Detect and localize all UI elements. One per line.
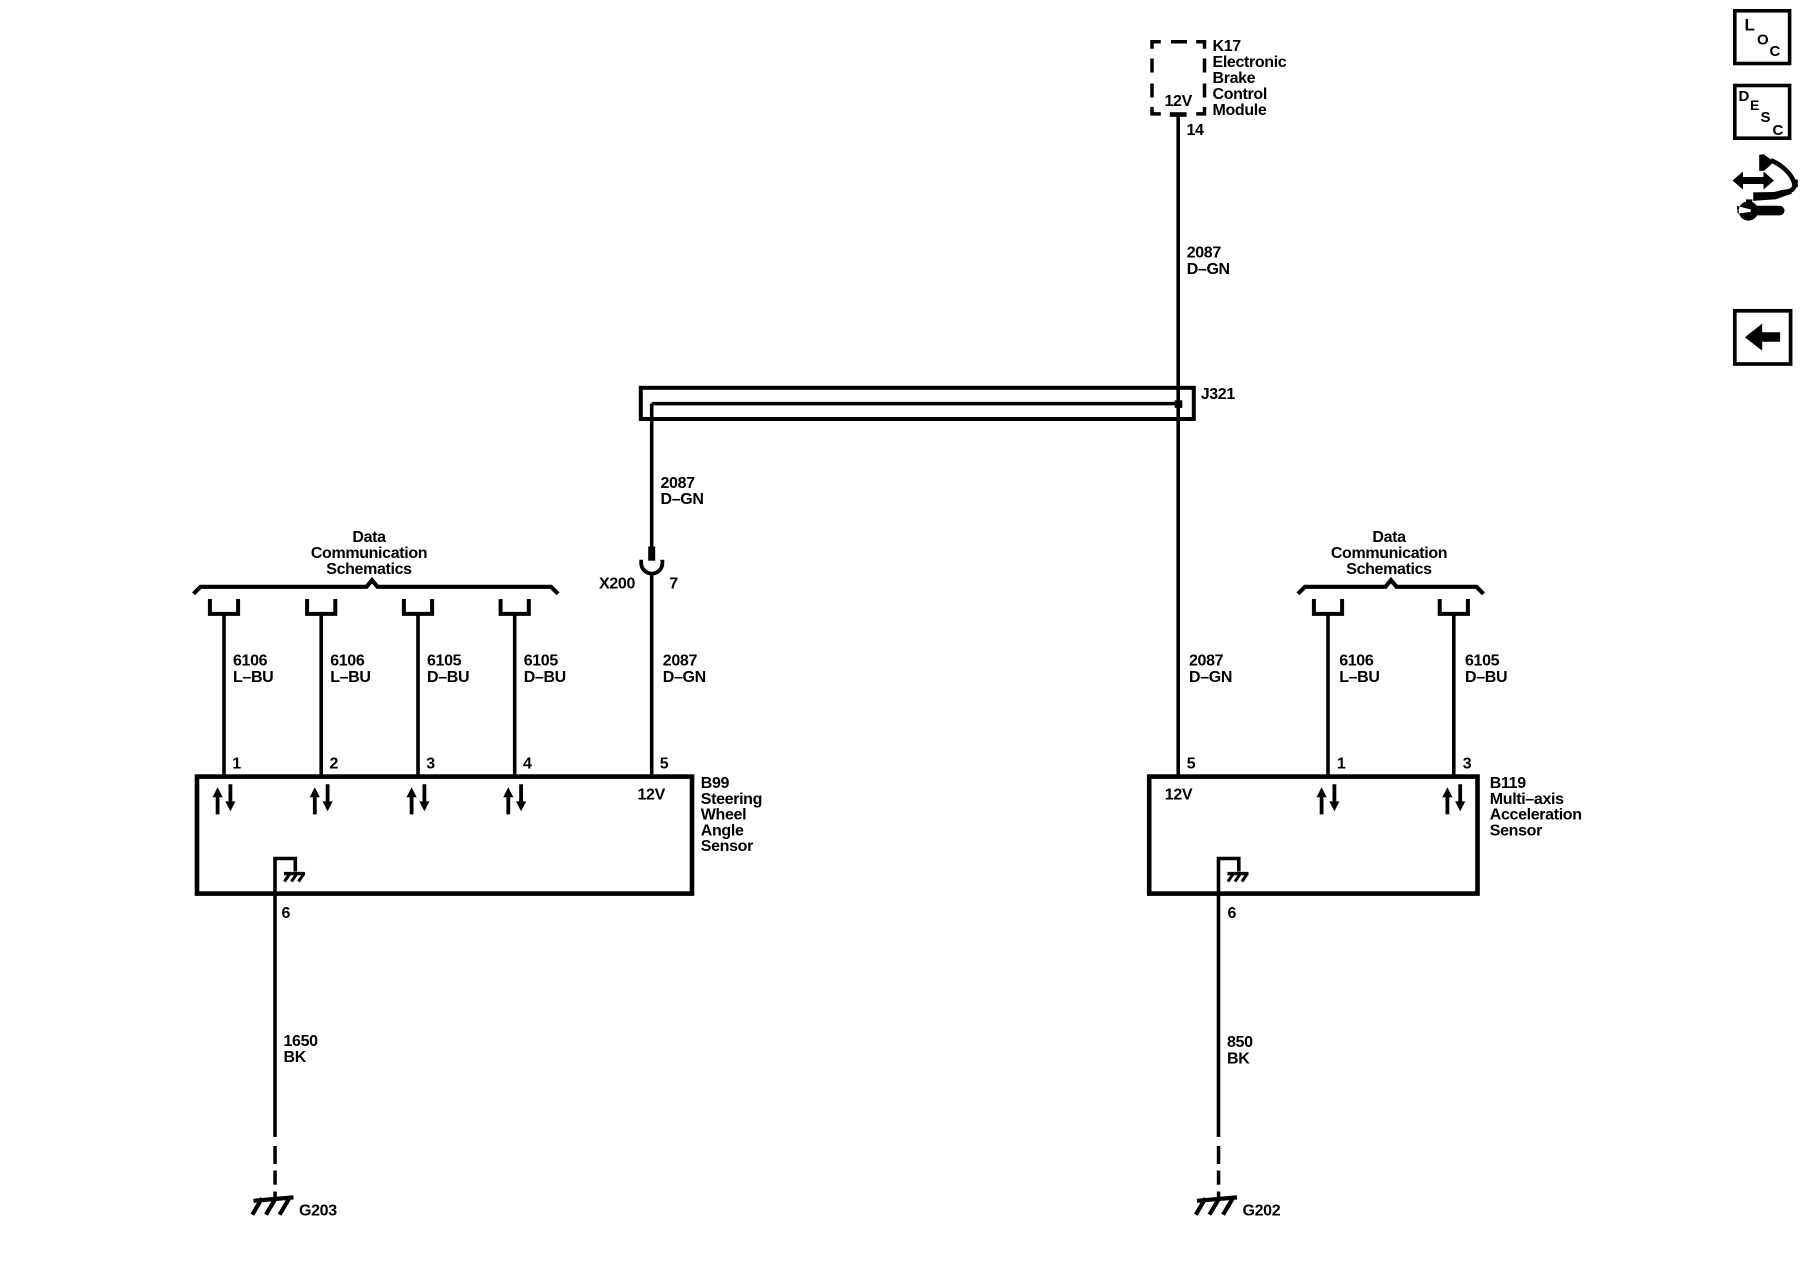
- svg-text:Multi–axis: Multi–axis: [1490, 791, 1564, 808]
- svg-text:X200: X200: [599, 576, 635, 593]
- svg-text:Data: Data: [1372, 529, 1406, 546]
- svg-text:Communication: Communication: [311, 545, 427, 562]
- svg-text:Sensor: Sensor: [1490, 822, 1542, 839]
- svg-text:6105: 6105: [427, 653, 462, 670]
- connector X200 male pin: [648, 547, 655, 561]
- wire 6106 L-BU to B119 pin 1: [1326, 614, 1330, 776]
- svg-text:6105: 6105: [1465, 653, 1500, 670]
- splice pack J321 (outer box): [641, 388, 1194, 419]
- svg-text:6106: 6106: [1339, 653, 1374, 670]
- svg-text:1: 1: [1337, 755, 1346, 772]
- svg-text:B99: B99: [701, 775, 730, 792]
- connector stub to data communication schematics (B99 pin 4): [501, 599, 529, 614]
- svg-text:1650: 1650: [284, 1033, 319, 1050]
- svg-text:6105: 6105: [524, 653, 559, 670]
- svg-text:D–GN: D–GN: [1187, 261, 1230, 278]
- svg-text:L–BU: L–BU: [1339, 669, 1379, 686]
- wire 6106 L-BU to B99 pin 2: [319, 614, 323, 776]
- connector X200 female cup: [641, 560, 662, 574]
- svg-text:D–GN: D–GN: [663, 669, 706, 686]
- bidirectional data arrows at B119 pin 1: [1317, 784, 1340, 814]
- svg-text:6106: 6106: [330, 653, 365, 670]
- svg-text:BK: BK: [1227, 1050, 1250, 1067]
- connector stub to data communication schematics (B119 pin 1): [1314, 599, 1342, 614]
- wire 6105 D-BU to B119 pin 3: [1452, 614, 1456, 776]
- svg-text:6: 6: [282, 905, 291, 922]
- svg-text:Module: Module: [1213, 102, 1267, 119]
- svg-text:S: S: [1761, 109, 1771, 126]
- connector stub to data communication schematics (B99 pin 1): [210, 599, 238, 614]
- svg-text:Wheel: Wheel: [701, 807, 746, 824]
- internal ground symbol at B99 pin 6: [275, 859, 305, 897]
- svg-text:Angle: Angle: [701, 822, 744, 839]
- svg-text:D–GN: D–GN: [661, 491, 704, 508]
- svg-text:2087: 2087: [1187, 245, 1222, 262]
- svg-text:C: C: [1773, 122, 1784, 139]
- svg-text:2087: 2087: [661, 475, 696, 492]
- icon schematic-jump (double arrow, curved arrow outline, wrench): [1733, 154, 1798, 220]
- ground G203 symbol: [252, 1197, 293, 1214]
- svg-text:C: C: [1770, 43, 1781, 60]
- svg-text:Steering: Steering: [701, 791, 762, 808]
- svg-text:1: 1: [232, 755, 241, 772]
- svg-text:Communication: Communication: [1331, 545, 1447, 562]
- junction dot on J321 bus at pin to K17: [1175, 400, 1183, 408]
- connector stub to data communication schematics (B99 pin 3): [404, 599, 432, 614]
- svg-text:Control: Control: [1213, 86, 1267, 103]
- svg-text:Brake: Brake: [1213, 70, 1256, 87]
- svg-text:4: 4: [523, 755, 532, 772]
- connector stub to data communication schematics (B99 pin 2): [307, 599, 335, 614]
- icon LOC button: [1735, 11, 1790, 64]
- icon back button: [1735, 311, 1791, 364]
- svg-text:7: 7: [669, 576, 678, 593]
- brace over left data communication stubs: [194, 580, 559, 594]
- wire 850 BK from B119 pin 6: [1217, 894, 1221, 1138]
- svg-text:G202: G202: [1243, 1202, 1281, 1219]
- pin 14 tick: [1170, 112, 1187, 117]
- svg-text:Schematics: Schematics: [326, 561, 412, 578]
- svg-text:D–BU: D–BU: [1465, 669, 1507, 686]
- dashed wire continuation to G203: [273, 1146, 277, 1198]
- internal ground symbol at B119 pin 6: [1219, 859, 1249, 897]
- svg-text:6: 6: [1228, 905, 1237, 922]
- svg-text:D–GN: D–GN: [1189, 669, 1232, 686]
- svg-text:BK: BK: [284, 1049, 307, 1066]
- svg-text:D–BU: D–BU: [427, 669, 469, 686]
- svg-text:3: 3: [1463, 755, 1472, 772]
- wire 2087 D-GN from K17 pin 14 to splice pack J321 and on to B119 pin 5: [1176, 116, 1180, 776]
- svg-text:5: 5: [1187, 755, 1196, 772]
- sensor B119 box: [1149, 777, 1477, 894]
- svg-text:Electronic: Electronic: [1213, 54, 1287, 71]
- icon DESC button: [1735, 86, 1790, 140]
- svg-text:Schematics: Schematics: [1346, 561, 1432, 578]
- wire 1650 BK from B99 pin 6: [273, 894, 277, 1138]
- svg-text:2: 2: [330, 755, 339, 772]
- svg-text:K17: K17: [1213, 38, 1242, 55]
- module K17 Electronic Brake Control Module (dashed box): [1152, 42, 1205, 114]
- svg-text:3: 3: [426, 755, 435, 772]
- wire 2087 D-GN from J321 down to connector X200: [650, 404, 654, 547]
- svg-text:L: L: [1745, 16, 1755, 35]
- bidirectional data arrows at B99 pin 2: [310, 784, 333, 814]
- brace over right data communication stubs: [1298, 580, 1484, 594]
- svg-text:L–BU: L–BU: [330, 669, 370, 686]
- svg-text:G203: G203: [299, 1202, 337, 1219]
- svg-text:2087: 2087: [663, 653, 698, 670]
- wire 6105 D-BU to B99 pin 3: [416, 614, 420, 776]
- svg-text:2087: 2087: [1189, 653, 1224, 670]
- splice pack J321 internal bus wire: [652, 402, 1178, 406]
- svg-text:14: 14: [1187, 122, 1205, 139]
- svg-text:5: 5: [660, 755, 669, 772]
- svg-text:12V: 12V: [1165, 93, 1193, 110]
- connector stub to data communication schematics (B119 pin 3): [1440, 599, 1468, 614]
- svg-text:D: D: [1739, 88, 1750, 105]
- bidirectional data arrows at B119 pin 3: [1442, 784, 1465, 814]
- svg-text:850: 850: [1227, 1034, 1253, 1051]
- bidirectional data arrows at B99 pin 4: [503, 784, 526, 814]
- svg-text:12V: 12V: [1165, 787, 1193, 804]
- sensor B99 box: [197, 777, 692, 894]
- svg-text:12V: 12V: [638, 787, 666, 804]
- svg-text:D–BU: D–BU: [524, 669, 566, 686]
- ground G202 symbol: [1196, 1197, 1237, 1214]
- wire 2087 D-GN from X200 pin 7 to B99 pin 5: [650, 574, 654, 777]
- dashed wire continuation to G202: [1217, 1146, 1221, 1198]
- svg-text:B119: B119: [1490, 775, 1526, 792]
- wire 6106 L-BU to B99 pin 1: [222, 614, 226, 776]
- svg-text:Acceleration: Acceleration: [1490, 807, 1582, 824]
- bidirectional data arrows at B99 pin 1: [213, 784, 236, 814]
- svg-text:Sensor: Sensor: [701, 838, 753, 855]
- wire 6105 D-BU to B99 pin 4: [513, 614, 517, 776]
- svg-text:J321: J321: [1201, 386, 1236, 403]
- svg-text:Data: Data: [352, 529, 386, 546]
- svg-text:L–BU: L–BU: [233, 669, 273, 686]
- svg-text:E: E: [1750, 97, 1759, 113]
- svg-text:O: O: [1757, 32, 1769, 49]
- bidirectional data arrows at B99 pin 3: [407, 784, 430, 814]
- svg-text:6106: 6106: [233, 653, 268, 670]
